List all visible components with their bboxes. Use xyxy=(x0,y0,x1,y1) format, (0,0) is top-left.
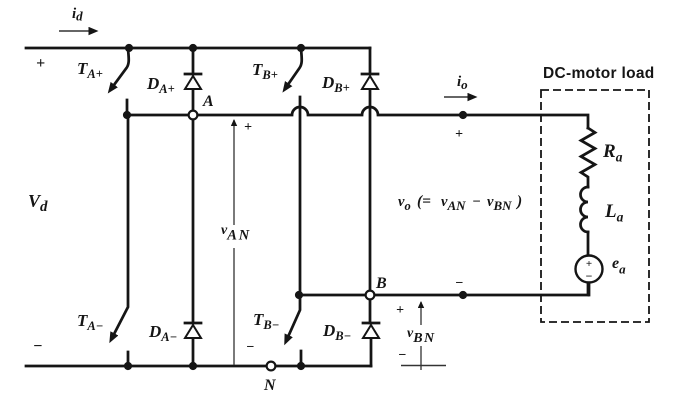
svg-text:vBN: vBN xyxy=(407,326,436,346)
svg-text:id: id xyxy=(72,6,83,24)
svg-text:+: + xyxy=(244,120,252,135)
svg-text:−: − xyxy=(472,194,481,210)
svg-text:−: − xyxy=(246,340,254,355)
svg-text:vAN: vAN xyxy=(441,194,466,213)
svg-text:DB+: DB+ xyxy=(321,73,350,95)
svg-text:A: A xyxy=(202,93,214,110)
svg-text:+: + xyxy=(455,127,463,142)
svg-text:(=: (= xyxy=(417,193,431,210)
svg-text:TA−: TA− xyxy=(77,311,103,333)
svg-text:−: − xyxy=(398,348,406,363)
svg-text:vBN: vBN xyxy=(487,194,512,213)
svg-text:B: B xyxy=(375,275,387,292)
svg-text:vAN: vAN xyxy=(221,223,251,244)
svg-text:TB−: TB− xyxy=(253,310,279,332)
svg-text:La: La xyxy=(604,201,624,225)
svg-text:DB−: DB− xyxy=(322,321,351,343)
svg-text:Ra: Ra xyxy=(602,141,623,165)
svg-text:DA+: DA+ xyxy=(146,74,175,96)
svg-text:−: − xyxy=(455,276,463,291)
svg-text:): ) xyxy=(515,193,522,210)
svg-text:ea: ea xyxy=(612,255,626,277)
svg-text:−: − xyxy=(586,269,593,283)
svg-text:Vd: Vd xyxy=(28,191,48,215)
svg-text:−: − xyxy=(33,338,43,355)
svg-text:+: + xyxy=(36,55,45,72)
svg-text:vo: vo xyxy=(398,194,411,213)
svg-text:io: io xyxy=(457,74,468,92)
svg-text:TB+: TB+ xyxy=(252,60,278,82)
svg-text:DC-motor load: DC-motor load xyxy=(543,65,655,82)
svg-text:+: + xyxy=(396,303,404,318)
svg-text:DA−: DA− xyxy=(148,322,177,344)
svg-text:N: N xyxy=(263,377,277,394)
svg-text:TA+: TA+ xyxy=(77,59,103,81)
